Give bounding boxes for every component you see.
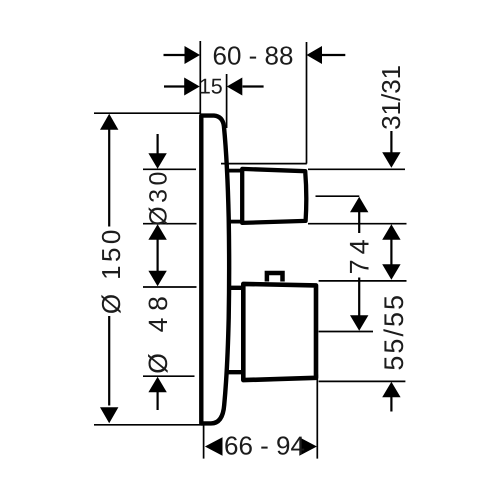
temperature knob — [242, 169, 306, 223]
extension line: knob top right — [308, 168, 405, 170]
dim 74 top arrow — [350, 197, 368, 213]
svg-text:Ø 48: Ø 48 — [143, 289, 173, 373]
svg-text:60 - 88: 60 - 88 — [213, 41, 294, 71]
dim 66-94 left arrow — [205, 437, 223, 455]
dim D48 bottom arrow — [148, 377, 166, 393]
extension line: plate front face (15) — [226, 74, 228, 128]
extension line: handle centerline — [319, 331, 373, 333]
dim 60-88 right arrow — [307, 46, 323, 64]
svg-text:66 - 94: 66 - 94 — [224, 431, 305, 461]
svg-text:Ø30: Ø30 — [145, 168, 173, 226]
line A (knob back edge reference) — [221, 163, 307, 165]
dim gap arrow left (double) — [148, 224, 166, 240]
extension line: plate left face (top) — [199, 41, 201, 114]
dim 15 left tail — [164, 85, 185, 87]
dim 60-88 left tail — [164, 54, 186, 56]
dim 60-88 left arrow — [185, 46, 201, 64]
svg-text:74: 74 — [344, 234, 374, 274]
svg-text:Ø 150: Ø 150 — [96, 226, 126, 314]
dim D150 bottom arrow — [100, 407, 118, 423]
dim 31/31 shaft — [390, 131, 392, 153]
dim D30 top tail — [157, 134, 159, 154]
extension line: handle top right — [319, 280, 407, 282]
knob stem top — [226, 169, 242, 173]
dim 15 left arrow — [184, 78, 200, 96]
dim D150 shaft bottom — [108, 316, 110, 406]
svg-text:31/31: 31/31 — [376, 65, 406, 130]
extension line: knob bottom left — [143, 223, 197, 225]
dim D150 shaft top — [108, 129, 110, 226]
handle stem top — [230, 286, 244, 290]
knob stem bottom — [227, 220, 242, 224]
extension line: handle bottom right — [319, 380, 406, 382]
extension line: valve top left — [143, 286, 197, 288]
svg-text:15: 15 — [199, 74, 223, 98]
handle stem bottom — [227, 370, 244, 374]
extension line: knob top left — [143, 168, 196, 170]
dim 55/55 bottom arrow — [382, 382, 400, 398]
extension line: knob bottom right — [308, 223, 407, 225]
dim gap arrow right (double) — [382, 224, 400, 240]
dim 74 bottom arrow — [358, 278, 360, 317]
dim 66-94 right arrow — [299, 437, 317, 455]
extension line: knob face (60-88 right) — [306, 42, 308, 164]
dim 15 right arrow — [227, 78, 243, 96]
dim 15 right tail — [243, 85, 264, 87]
extension line: plate bottom (left) — [94, 424, 204, 426]
extension line: plate bottom corner (66-94 left) — [203, 426, 205, 459]
handle top tab — [267, 273, 283, 282]
dim D150 top arrow — [100, 114, 118, 130]
dim 60-88 right tail — [322, 54, 345, 56]
extension line: knob centerline — [316, 195, 360, 197]
extension line: handle face (66-94 right) — [316, 375, 318, 459]
extension line: valve bottom left — [143, 375, 195, 377]
dim D30 top arrow — [148, 153, 166, 169]
dim 31/31 arrow — [382, 152, 400, 168]
volume handle — [243, 284, 316, 380]
extension line: plate top (left) — [94, 112, 201, 114]
svg-text:55/55: 55/55 — [379, 293, 409, 371]
escutcheon plate (side view) — [201, 116, 229, 424]
